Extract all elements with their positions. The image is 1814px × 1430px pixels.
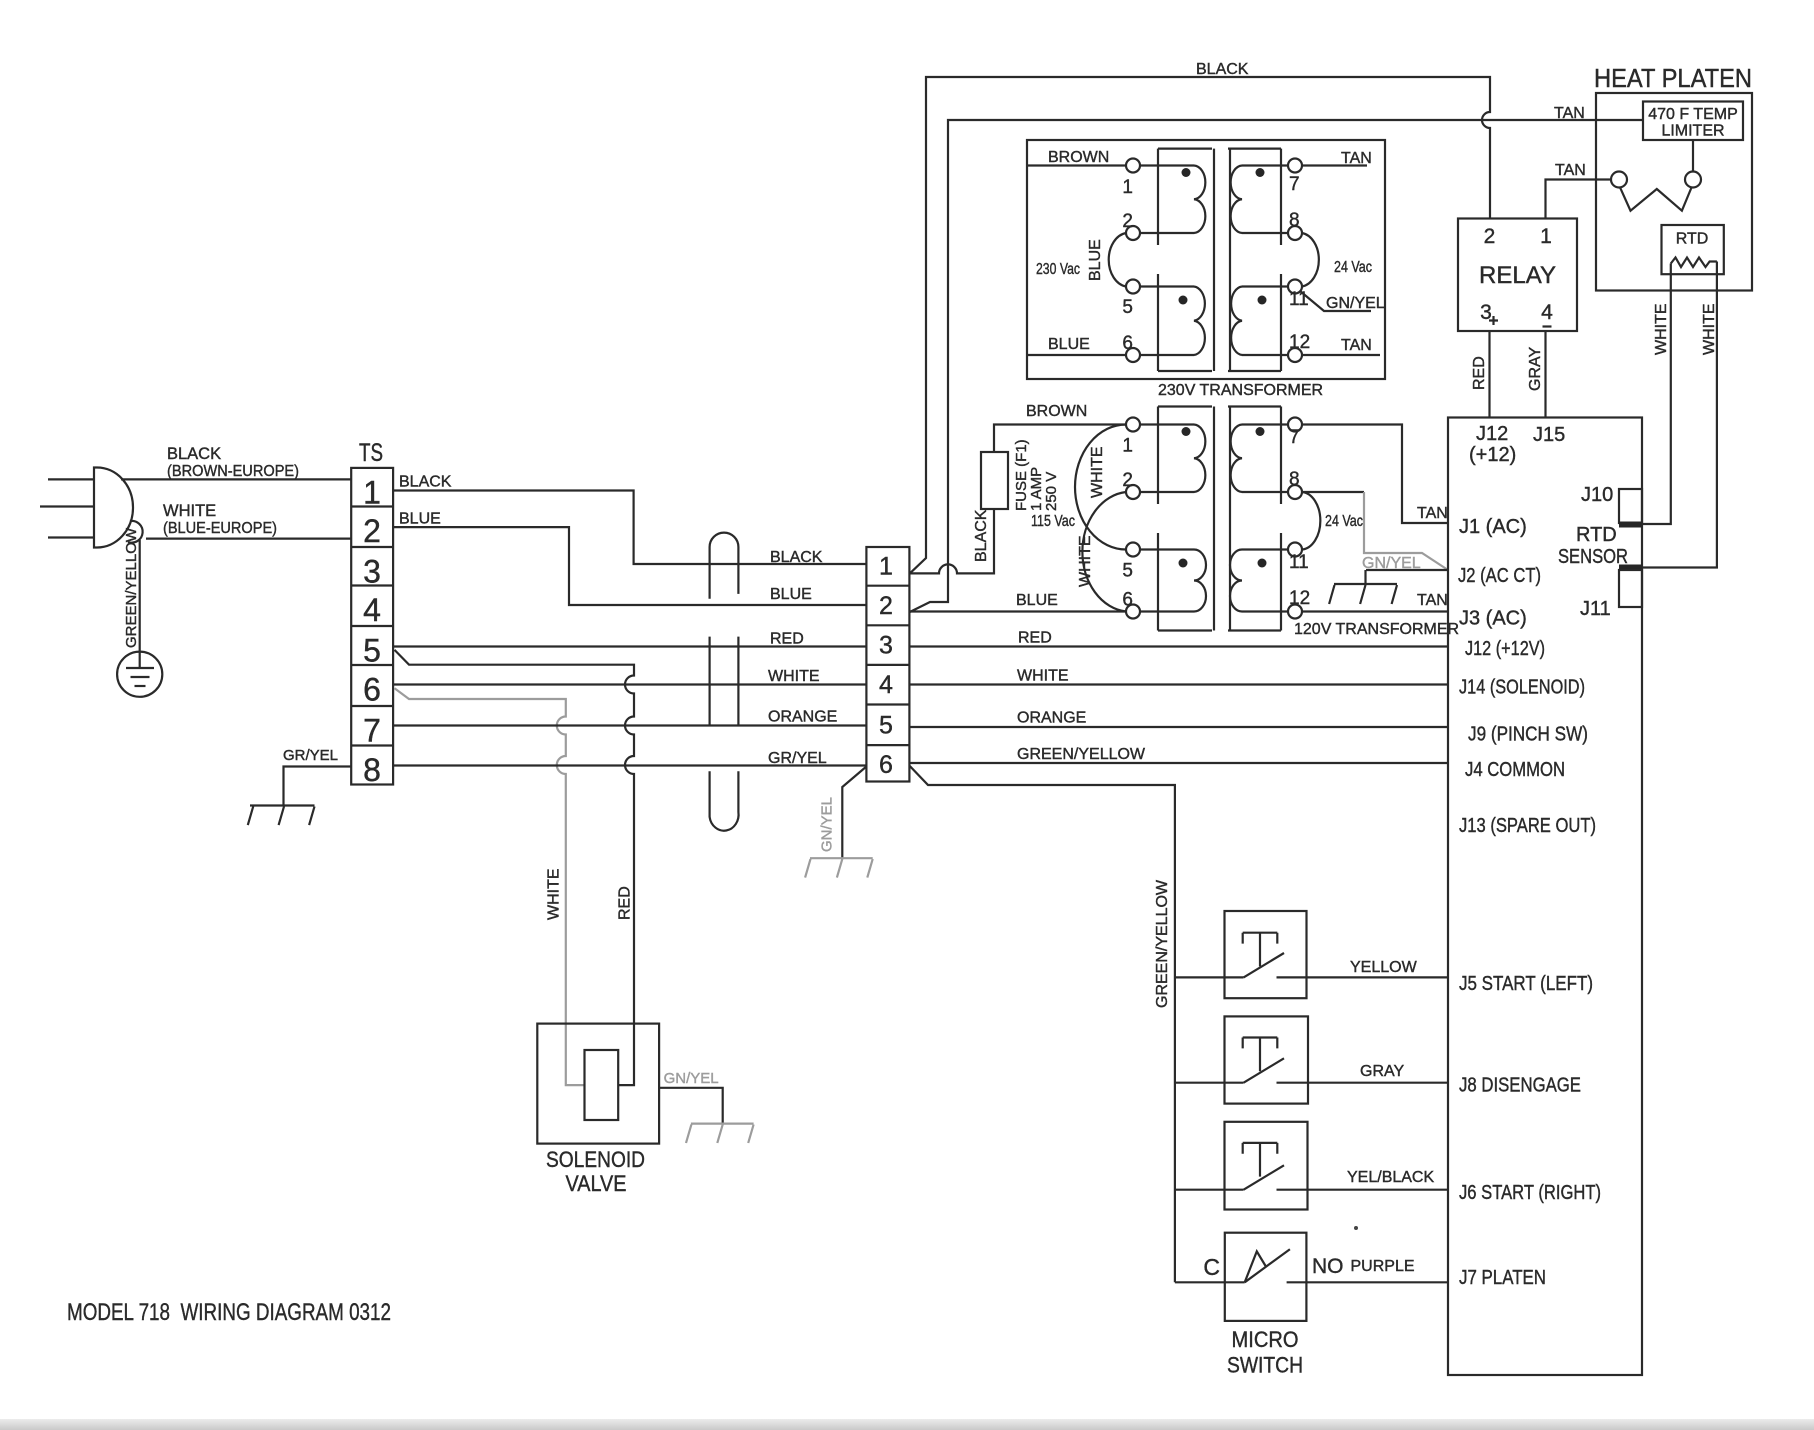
terminal strip TS outline — [351, 468, 393, 785]
svg-text:RTD: RTD — [1576, 524, 1617, 546]
120V pin 11 line — [1242, 548, 1288, 550]
230V frame horizontals — [1158, 149, 1281, 371]
svg-text:TAN: TAN — [1555, 162, 1586, 179]
SW1 feed wire — [1175, 976, 1244, 978]
svg-text:C: C — [1203, 1254, 1220, 1280]
wire YEL/BLACK SW3 to J6 — [1277, 1189, 1449, 1191]
chassis ground comb (connector 6, gray) — [805, 858, 873, 877]
120V primary winding 5-6 — [1194, 549, 1206, 611]
svg-text:230 Vac: 230 Vac — [1036, 261, 1080, 278]
230V pin terminal circles — [1126, 159, 1302, 363]
power plug P1 body — [94, 468, 133, 548]
svg-text:GN/YEL: GN/YEL — [819, 797, 836, 852]
wire GN/YEL 230V pin 11 — [1300, 291, 1371, 311]
SW2 feed wire — [1175, 1082, 1244, 1084]
wire BLUE to 230V pin 6 — [1027, 354, 1126, 356]
svg-text:BLACK: BLACK — [770, 549, 823, 566]
230V primary winding 5-6 — [1194, 287, 1205, 356]
stray dot — [1354, 1226, 1358, 1230]
svg-text:J2 (AC CT): J2 (AC CT) — [1458, 565, 1541, 587]
svg-text:2: 2 — [363, 513, 381, 549]
svg-text:BLUE: BLUE — [1048, 336, 1090, 353]
J11 contact bar (thick) — [1619, 565, 1642, 571]
chassis ground comb (solenoid, gray) — [686, 1124, 754, 1143]
svg-text:J9 (PINCH SW): J9 (PINCH SW) — [1468, 724, 1588, 746]
wire TAN relay pin 1 to heater — [1546, 180, 1612, 219]
svg-text:YELLOW: YELLOW — [1350, 959, 1418, 976]
J10 connector notch — [1619, 489, 1642, 523]
230V secondary winding 7-8 — [1231, 166, 1242, 234]
svg-text:GRAY: GRAY — [1360, 1063, 1404, 1080]
svg-text:WHITE: WHITE — [768, 668, 820, 685]
svg-text:(BROWN-EUROPE): (BROWN-EUROPE) — [167, 463, 299, 480]
wire BLACK connector 1 up-over to relay pin 2 (hops TAN line) — [910, 77, 1490, 573]
relay minus mark — [1543, 325, 1552, 327]
230V phase dots — [1182, 168, 1191, 177]
120V primary pin stub lines — [1140, 425, 1194, 612]
connector dividers — [866, 586, 909, 745]
svg-text:5: 5 — [1122, 297, 1133, 318]
svg-text:BLACK: BLACK — [399, 474, 452, 491]
svg-text:BLUE: BLUE — [399, 511, 441, 528]
svg-text:WHITE: WHITE — [1089, 446, 1106, 498]
SW1 plunger symbol — [1243, 933, 1278, 967]
svg-text:BROWN: BROWN — [1026, 403, 1087, 420]
controller board box — [1448, 418, 1642, 1376]
svg-text:TAN: TAN — [1554, 105, 1585, 122]
svg-text:230V TRANSFORMER: 230V TRANSFORMER — [1158, 382, 1323, 399]
svg-text:5: 5 — [1122, 561, 1133, 582]
svg-text:TAN: TAN — [1341, 337, 1372, 354]
svg-text:3: 3 — [363, 554, 381, 590]
earth ground symbol — [117, 652, 162, 697]
wire BROWN to 230V pin 1 — [1027, 164, 1126, 166]
svg-text:6: 6 — [1122, 590, 1133, 611]
solenoid valve coil rect — [585, 1050, 619, 1120]
J11 connector notch — [1619, 570, 1642, 607]
RTD box — [1662, 225, 1724, 274]
cable harness loop left segments — [708, 547, 710, 817]
wire GR/YEL TS8 left to chassis ground — [284, 767, 352, 806]
120V jumper WHITE arc pins 1-5 — [1075, 425, 1126, 550]
wire BLUE connector 2 to 120V transformer pin 6 — [910, 610, 1126, 612]
cable harness loop (top hairpin) — [710, 533, 739, 547]
svg-text:J3 (AC): J3 (AC) — [1459, 608, 1527, 630]
TS dividers — [351, 507, 393, 746]
230V transformer enclosure box — [1027, 140, 1385, 379]
wire J2 to chassis ground — [1366, 570, 1449, 584]
svg-text:5: 5 — [879, 712, 893, 740]
svg-text:BLUE: BLUE — [1087, 239, 1104, 281]
svg-text:SOLENOID: SOLENOID — [546, 1147, 645, 1172]
svg-text:J12: J12 — [1476, 423, 1508, 445]
svg-text:RED: RED — [617, 886, 634, 920]
svg-text:YEL/BLACK: YEL/BLACK — [1347, 1169, 1434, 1186]
wire WHITE connector 4 to J14 (SOLENOID) — [909, 683, 1448, 685]
wire WHITE RTD left lead to J10 — [1642, 264, 1671, 525]
svg-text:GN/YEL: GN/YEL — [1326, 295, 1385, 312]
plug prong line (neutral) — [40, 505, 94, 507]
svg-text:250 V: 250 V — [1043, 472, 1060, 511]
svg-text:3: 3 — [879, 632, 893, 660]
micro switch blade — [1245, 1249, 1290, 1282]
svg-text:2: 2 — [1122, 211, 1133, 232]
svg-text:PURPLE: PURPLE — [1351, 1258, 1415, 1275]
svg-text:115 Vac: 115 Vac — [1031, 513, 1075, 530]
svg-text:5: 5 — [363, 633, 381, 669]
svg-text:GREEN/YELLOW: GREEN/YELLOW — [1154, 879, 1171, 1008]
wire GREEN/YELLOW plug to earth — [139, 540, 141, 652]
svg-text:6: 6 — [363, 672, 381, 708]
wire RED TS5 to connector 3 — [393, 645, 866, 647]
svg-text:J13 (SPARE OUT): J13 (SPARE OUT) — [1459, 815, 1596, 837]
120V pin terminal circles — [1126, 418, 1302, 619]
relay plus mark — [1489, 316, 1498, 325]
wire ORANGE TS7 to connector 5 — [393, 724, 866, 726]
svg-text:TS: TS — [359, 439, 383, 467]
120V frame horizontals — [1158, 407, 1281, 631]
heat platen box — [1596, 93, 1752, 291]
wire WHITE TS6 to connector 4 — [393, 683, 866, 685]
svg-text:7: 7 — [363, 713, 381, 749]
svg-text:J7 PLATEN: J7 PLATEN — [1459, 1267, 1546, 1289]
wire GRAY SW2 to J8 — [1277, 1082, 1449, 1084]
svg-text:470 F TEMP: 470 F TEMP — [1648, 106, 1738, 123]
J10 contact bar (thick) — [1619, 522, 1642, 528]
svg-text:J6 START (RIGHT): J6 START (RIGHT) — [1459, 1182, 1601, 1204]
plug prong line (hot) — [48, 478, 94, 480]
wire GN/YEL connector 6 down to chassis ground — [842, 767, 866, 859]
svg-text:4: 4 — [1541, 301, 1553, 324]
wire GN/YEL 120V to J2 (gray) — [1364, 492, 1448, 570]
fuse F1 top lead to BROWN line — [994, 425, 1126, 453]
heater element terminal circles — [1611, 172, 1627, 188]
wire PURPLE micro switch to J7 — [1287, 1281, 1448, 1283]
svg-text:RED: RED — [1471, 356, 1488, 390]
svg-text:RTD: RTD — [1676, 231, 1709, 248]
wire GREEN/YELLOW connector 6 to J4 COMMON — [909, 762, 1448, 764]
wire RED connector 3 to J12 (+12V) — [909, 645, 1448, 647]
svg-text:SWITCH: SWITCH — [1227, 1353, 1303, 1378]
svg-text:SENSOR: SENSOR — [1558, 546, 1628, 568]
SW2 plunger symbol — [1243, 1038, 1278, 1072]
230V primary pin stub lines — [1140, 166, 1194, 356]
svg-text:(+12): (+12) — [1469, 444, 1516, 466]
wire WHITE RTD right lead to J11 — [1642, 262, 1717, 568]
wire BLACK connector 1 to fuse (hop over vertical) — [910, 509, 994, 573]
wire BLACK plug to TS1 — [121, 478, 351, 480]
svg-text:1: 1 — [1122, 436, 1133, 457]
svg-text:12: 12 — [1289, 588, 1310, 609]
230V jumper arc pins 8-11 (24 Vac) — [1302, 233, 1319, 287]
svg-text:J12 (+12V): J12 (+12V) — [1465, 638, 1545, 660]
svg-text:MICRO: MICRO — [1232, 1327, 1299, 1352]
plug neutral pin bump — [128, 521, 143, 543]
svg-text:J1 (AC): J1 (AC) — [1459, 516, 1527, 538]
plug prong line (ground) — [48, 536, 94, 538]
svg-text:ORANGE: ORANGE — [1017, 710, 1086, 727]
pushbutton switch SW1 box (J5) — [1225, 911, 1307, 998]
svg-text:J4 COMMON: J4 COMMON — [1465, 759, 1565, 781]
svg-text:12: 12 — [1289, 332, 1310, 353]
pushbutton switch SW2 box (J8) — [1225, 1016, 1309, 1103]
svg-text:GR/YEL: GR/YEL — [768, 750, 827, 767]
micro switch feed wire — [1175, 1281, 1245, 1283]
230V secondary lead line — [1280, 149, 1282, 371]
230V secondary pin lines — [1242, 166, 1380, 356]
230V jumper BLUE arc pins 2-5 — [1109, 233, 1126, 287]
svg-text:4: 4 — [363, 592, 381, 628]
svg-text:1: 1 — [363, 474, 381, 510]
chassis ground comb (J2) — [1329, 584, 1397, 604]
svg-text:VALVE: VALVE — [566, 1171, 627, 1196]
heater element zigzag — [1620, 187, 1692, 210]
svg-text:8: 8 — [363, 752, 381, 788]
svg-text:BLUE: BLUE — [770, 586, 812, 603]
svg-text:2: 2 — [1484, 225, 1496, 248]
230V core lines — [1214, 149, 1230, 371]
wire BLUE TS2 to connector 2 — [393, 527, 866, 605]
wire WHITE plug to TS2 — [146, 537, 351, 539]
svg-text:24 Vac: 24 Vac — [1325, 513, 1363, 530]
120V core lines — [1214, 407, 1230, 631]
120V secondary winding 11-12 — [1230, 549, 1242, 611]
svg-text:1: 1 — [1122, 177, 1133, 198]
svg-text:WHITE: WHITE — [546, 868, 563, 920]
micro switch spring — [1245, 1251, 1266, 1282]
svg-text:BLACK: BLACK — [167, 445, 221, 463]
120V pin 8 line — [1242, 491, 1364, 493]
SW3 blade — [1244, 1165, 1284, 1189]
svg-text:1: 1 — [1540, 225, 1552, 248]
solenoid valve outer box — [537, 1024, 659, 1144]
svg-text:WHITE: WHITE — [1077, 535, 1094, 587]
SW1 blade — [1244, 953, 1284, 977]
svg-text:ORANGE: ORANGE — [768, 709, 837, 726]
wire WHITE branch TS6 down to solenoid valve (gray, with hops) — [395, 688, 585, 1085]
svg-text:J15: J15 — [1533, 424, 1565, 446]
svg-text:RELAY: RELAY — [1479, 262, 1556, 289]
svg-text:GREEN/YELLOW: GREEN/YELLOW — [123, 527, 140, 648]
SW3 plunger symbol — [1243, 1143, 1278, 1177]
wire GREEN/YELLOW connector 6 down to switch chain — [910, 766, 1175, 1282]
svg-text:RED: RED — [1018, 630, 1052, 647]
svg-text:MODEL 718 WIRING DIAGRAM 0312: MODEL 718 WIRING DIAGRAM 0312 — [67, 1299, 391, 1326]
svg-text:WHITE: WHITE — [1701, 303, 1718, 355]
470 F temp limiter box — [1643, 102, 1743, 141]
wire GR/YEL TS8 to connector 6 — [393, 764, 866, 766]
wire RED branch TS5 down to solenoid valve (with hops) — [395, 650, 635, 1085]
svg-text:WHITE: WHITE — [163, 502, 216, 520]
micro switch box (J7) — [1225, 1233, 1307, 1321]
pushbutton switch SW3 box (J6) — [1225, 1122, 1308, 1210]
svg-text:GRAY: GRAY — [1527, 347, 1544, 391]
wire BLACK TS1 to connector 1 — [393, 491, 866, 565]
120V jumper WHITE arc pins 2-6 — [1082, 492, 1126, 612]
svg-text:LIMITER: LIMITER — [1661, 123, 1724, 140]
120V primary lead line — [1157, 407, 1159, 631]
svg-text:TAN: TAN — [1341, 150, 1372, 167]
svg-text:2: 2 — [1122, 470, 1133, 491]
wire BLUE connector 2 up to TAN line to 470F limiter — [910, 120, 1643, 612]
svg-text:120V TRANSFORMER: 120V TRANSFORMER — [1294, 621, 1459, 638]
svg-text:7: 7 — [1289, 427, 1300, 448]
svg-text:BLUE: BLUE — [1016, 592, 1058, 609]
wire GN/YEL solenoid to chassis ground — [659, 1088, 723, 1124]
wire ORANGE connector 5 to J9 (PINCH SW) — [909, 726, 1448, 728]
svg-text:GR/YEL: GR/YEL — [283, 747, 338, 764]
svg-text:J5 START (LEFT): J5 START (LEFT) — [1459, 973, 1593, 995]
svg-text:24 Vac: 24 Vac — [1334, 259, 1372, 276]
120V jumper arc pins 8-11 (24 Vac) — [1302, 492, 1320, 550]
svg-text:NO: NO — [1312, 1255, 1344, 1278]
wire TAN 120V pin 7 to J1 (AC) — [1242, 425, 1448, 524]
svg-text:7: 7 — [1289, 174, 1300, 195]
230V primary winding 1-2 — [1194, 166, 1205, 234]
svg-text:4: 4 — [879, 671, 893, 699]
wire GRAY relay pin 4 to J15 — [1544, 331, 1546, 418]
230V secondary winding 11-12 — [1231, 287, 1242, 356]
wire TAN 120V pin 12 to J3 (AC) — [1242, 610, 1448, 612]
svg-text:J11: J11 — [1580, 598, 1611, 620]
120V primary winding 1-2 — [1194, 425, 1205, 493]
cable harness loop right segments — [737, 547, 739, 812]
svg-text:J14 (SOLENOID): J14 (SOLENOID) — [1459, 677, 1585, 699]
wire limiter to heater element — [1692, 140, 1694, 172]
fuse F1 body — [981, 452, 1008, 509]
svg-text:BROWN: BROWN — [1048, 149, 1109, 166]
svg-text:BLACK: BLACK — [1196, 61, 1249, 78]
svg-text:TAN: TAN — [1417, 505, 1448, 522]
chassis ground comb (TS8) — [248, 806, 315, 826]
svg-text:WHITE: WHITE — [1653, 303, 1670, 355]
svg-text:BLACK: BLACK — [973, 509, 990, 562]
SW2 blade — [1244, 1058, 1284, 1082]
svg-text:11: 11 — [1289, 289, 1309, 310]
wire RED relay pin 3 to J12 — [1488, 331, 1490, 418]
relay box — [1458, 219, 1577, 332]
wire YELLOW SW1 to J5 — [1277, 976, 1449, 978]
svg-text:GREEN/YELLOW: GREEN/YELLOW — [1017, 746, 1146, 763]
svg-text:J8 DISENGAGE: J8 DISENGAGE — [1459, 1075, 1581, 1097]
svg-text:8: 8 — [1289, 469, 1300, 490]
svg-text:HEAT PLATEN: HEAT PLATEN — [1594, 65, 1752, 93]
svg-text:WHITE: WHITE — [1017, 668, 1069, 685]
120V phase dots — [1182, 427, 1191, 436]
svg-text:6: 6 — [879, 751, 893, 779]
connector strip outline — [866, 547, 909, 782]
RTD resistor zigzag — [1671, 258, 1717, 268]
svg-text:RED: RED — [770, 631, 804, 648]
120V secondary winding 7-8 — [1231, 425, 1242, 493]
svg-text:1: 1 — [879, 553, 893, 581]
svg-text:6: 6 — [1122, 333, 1133, 354]
svg-text:2: 2 — [879, 592, 893, 620]
svg-text:11: 11 — [1289, 552, 1309, 573]
svg-text:8: 8 — [1289, 210, 1300, 231]
SW3 feed wire — [1175, 1189, 1244, 1191]
svg-text:TAN: TAN — [1417, 592, 1448, 609]
cable harness loop (bottom hairpin) — [710, 812, 739, 831]
svg-text:(BLUE-EUROPE): (BLUE-EUROPE) — [163, 520, 277, 537]
svg-text:GN/YEL: GN/YEL — [664, 1070, 719, 1087]
120V secondary lead line — [1280, 407, 1282, 631]
230V primary lead line — [1157, 149, 1159, 371]
svg-text:J10: J10 — [1581, 484, 1613, 506]
